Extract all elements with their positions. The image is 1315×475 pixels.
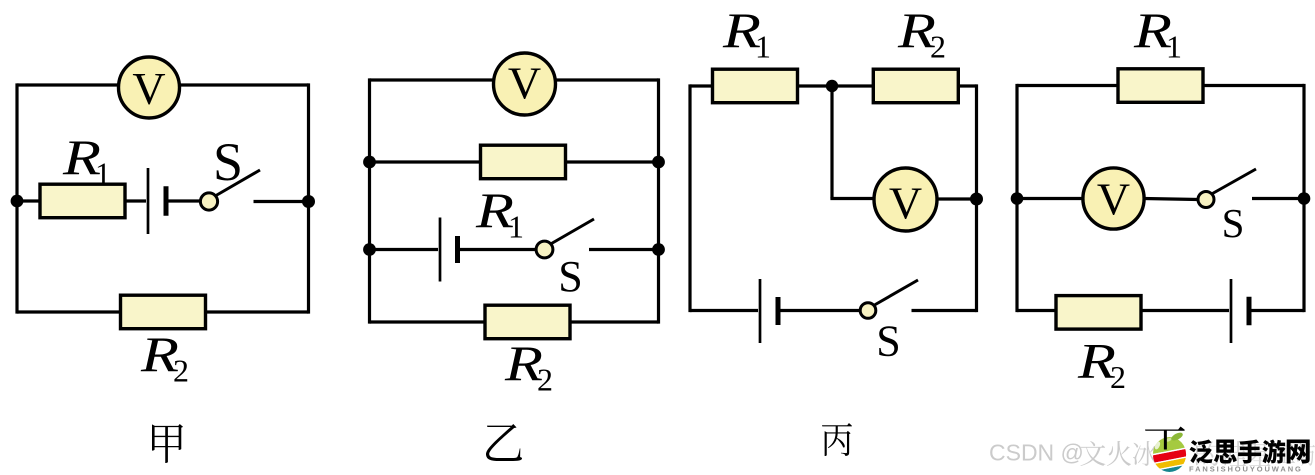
circuit jia: resistor R1 [40, 184, 125, 218]
circuit yi: wire battery to switch [459, 248, 537, 251]
svg-text:S: S [558, 252, 582, 301]
circuit jia: switch S lever [216, 170, 260, 196]
circuit bing: resistor R1 [713, 69, 798, 103]
svg-text:S: S [1222, 200, 1245, 246]
logo: apple icon [1141, 420, 1199, 475]
circuit yi: branch3 wire left [370, 248, 439, 251]
logo: text si [1214, 440, 1237, 464]
logo: text shou [1238, 440, 1261, 464]
circuit yi: switch S pivot [536, 241, 553, 258]
svg-text:2: 2 [930, 29, 946, 65]
circuit jia: bottom wire [17, 310, 309, 313]
watermark: faint char ji [1248, 441, 1272, 466]
watermark: faint char gui [1222, 441, 1246, 466]
logo: text wang [1287, 440, 1310, 464]
circuit ding: wire battery to right [1252, 309, 1305, 312]
circuit bing: battery [759, 279, 762, 343]
circuit yi: right wire [657, 78, 660, 323]
circuit ding: right wire [1302, 84, 1305, 312]
circuit ding: voltmeter V [1083, 168, 1144, 229]
circuit ding: node left [1011, 192, 1024, 205]
svg-text:CSDN @: CSDN @ [989, 440, 1084, 466]
circuit ding: switch S pivot [1198, 192, 1214, 208]
logo: text you [1262, 439, 1285, 463]
circuit jia: middle wire left [17, 199, 43, 202]
circuit bing: node right [970, 193, 983, 206]
circuit ding: switch fixed contact wire [1252, 197, 1304, 200]
circuit jia: wire resistor to battery [125, 199, 146, 202]
circuit ding: left wire [1015, 84, 1018, 312]
circuit jia: caption jia [152, 424, 183, 463]
svg-text:1: 1 [508, 209, 524, 245]
circuit jia: wire battery to switch [166, 199, 201, 202]
watermark: faint char huo [1107, 441, 1131, 466]
circuit yi: caption yi [486, 424, 522, 461]
circuit jia: resistor R2 [121, 295, 206, 329]
circuit yi: resistor R2 [485, 305, 570, 339]
circuit jia: left wire [15, 83, 18, 313]
circuit bing: switch S lever [875, 280, 919, 305]
svg-text:2: 2 [537, 362, 553, 398]
watermark: faint char bing2 [1133, 441, 1157, 466]
circuit bing: caption bing [822, 423, 852, 456]
circuit ding: node right [1298, 192, 1311, 205]
circuit bing: bottom wire left [690, 309, 758, 312]
circuit jia: voltmeter V [119, 57, 180, 118]
svg-text:S: S [213, 132, 243, 192]
circuit ding: wire voltmeter to switch [1144, 199, 1199, 200]
circuit bing: resistor R2 [873, 69, 958, 103]
watermark: faint char fang [1297, 441, 1315, 466]
circuit ding: resistor R1 [1118, 69, 1203, 103]
svg-text:1: 1 [95, 156, 111, 192]
circuit jia: switch S pivot [200, 193, 217, 210]
circuit ding: wire R2 to battery [1141, 309, 1229, 312]
circuit bing: wire battery to switch [780, 309, 860, 312]
watermark: faint char gong [1274, 444, 1295, 463]
circuit yi: resistor R1 [481, 145, 566, 179]
circuit jia: node right [302, 195, 315, 208]
circuit bing: left wire [688, 84, 691, 312]
circuit jia: switch fixed contact wire [254, 200, 309, 203]
circuit yi: node b3 right [652, 243, 665, 256]
circuit ding: battery [1230, 279, 1233, 343]
circuit yi: top wire [370, 78, 659, 81]
circuit ding: top wire [1017, 84, 1304, 87]
circuit ding: switch S lever [1213, 169, 1257, 194]
circuit bing: top wire left [690, 84, 714, 87]
circuit yi: node b2 right [652, 156, 665, 169]
circuit ding: middle wire left [1017, 197, 1084, 200]
circuit jia: right wire [307, 83, 310, 313]
circuit jia: top wire [17, 83, 309, 86]
circuit yi: node b2 left [363, 156, 376, 169]
svg-text:1: 1 [755, 29, 771, 65]
circuit bing: top wire middle [797, 84, 875, 87]
circuit yi: switch fixed contact wire [589, 248, 659, 251]
logo: text fan [1189, 440, 1212, 464]
svg-text:1: 1 [1166, 29, 1182, 65]
circuit bing: junction drop wire [830, 86, 833, 199]
circuit yi: battery [439, 218, 442, 282]
circuit yi: branch2 wire [370, 160, 659, 163]
circuit yi: left wire [368, 78, 371, 323]
svg-text:2: 2 [1110, 359, 1126, 395]
circuit ding: bottom wire left [1017, 309, 1057, 312]
svg-text:V: V [1097, 174, 1130, 225]
watermark: faint char wen [1081, 441, 1106, 466]
circuit yi: node b3 left [363, 243, 376, 256]
circuit ding: caption ding [1145, 427, 1185, 465]
svg-text:FANSISHOUYOUWANG: FANSISHOUYOUWANG [1189, 465, 1303, 474]
svg-text:S: S [876, 317, 900, 366]
circuit jia: battery [147, 168, 150, 234]
circuit bing: voltmeter V [874, 168, 937, 231]
circuit bing: switch S pivot [860, 303, 876, 319]
circuit bing: switch fixed contact wire [912, 309, 977, 312]
circuit bing: right wire [975, 84, 978, 312]
svg-text:2: 2 [173, 353, 189, 389]
circuit yi: switch S lever [552, 219, 595, 244]
circuit yi: bottom wire [370, 320, 659, 323]
circuit bing: top wire right [957, 84, 977, 87]
watermark: faint char de [1196, 441, 1220, 466]
svg-text:V: V [132, 63, 165, 114]
watermark: faint char tang [1159, 441, 1183, 466]
circuit ding: resistor R2 [1056, 296, 1141, 330]
circuit bing: junction node [826, 80, 838, 92]
svg-text:V: V [889, 178, 922, 229]
circuit bing: wire voltmeter to right [937, 197, 977, 200]
circuit yi: voltmeter V [494, 53, 556, 115]
svg-text:V: V [508, 58, 541, 109]
circuit jia: node left [11, 195, 24, 208]
